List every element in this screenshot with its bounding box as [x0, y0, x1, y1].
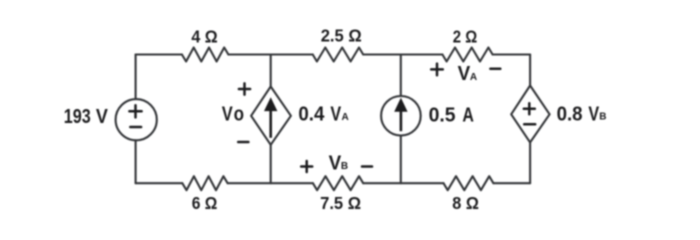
svg-text:o: o [234, 104, 244, 126]
svg-text:6 Ω: 6 Ω [192, 193, 218, 213]
svg-text:A: A [470, 72, 477, 83]
svg-text:8 Ω: 8 Ω [452, 193, 479, 213]
svg-text:7.5 Ω: 7.5 Ω [320, 193, 361, 213]
svg-text:4 Ω: 4 Ω [191, 26, 217, 46]
svg-text:2 Ω: 2 Ω [453, 26, 478, 46]
svg-text:193: 193 [64, 106, 91, 128]
svg-text:0.5: 0.5 [429, 104, 456, 126]
svg-text:0.4: 0.4 [298, 103, 325, 125]
svg-text:B: B [599, 111, 606, 122]
svg-text:V: V [588, 103, 599, 125]
svg-text:2.5 Ω: 2.5 Ω [321, 26, 362, 46]
svg-text:V: V [222, 104, 234, 126]
svg-text:A: A [462, 104, 474, 126]
svg-text:V: V [458, 63, 471, 85]
svg-text:0.8: 0.8 [557, 103, 583, 125]
svg-text:V: V [96, 106, 109, 128]
svg-text:V: V [330, 103, 341, 125]
svg-text:A: A [342, 112, 349, 123]
svg-text:V: V [329, 152, 342, 174]
svg-text:B: B [341, 161, 348, 172]
